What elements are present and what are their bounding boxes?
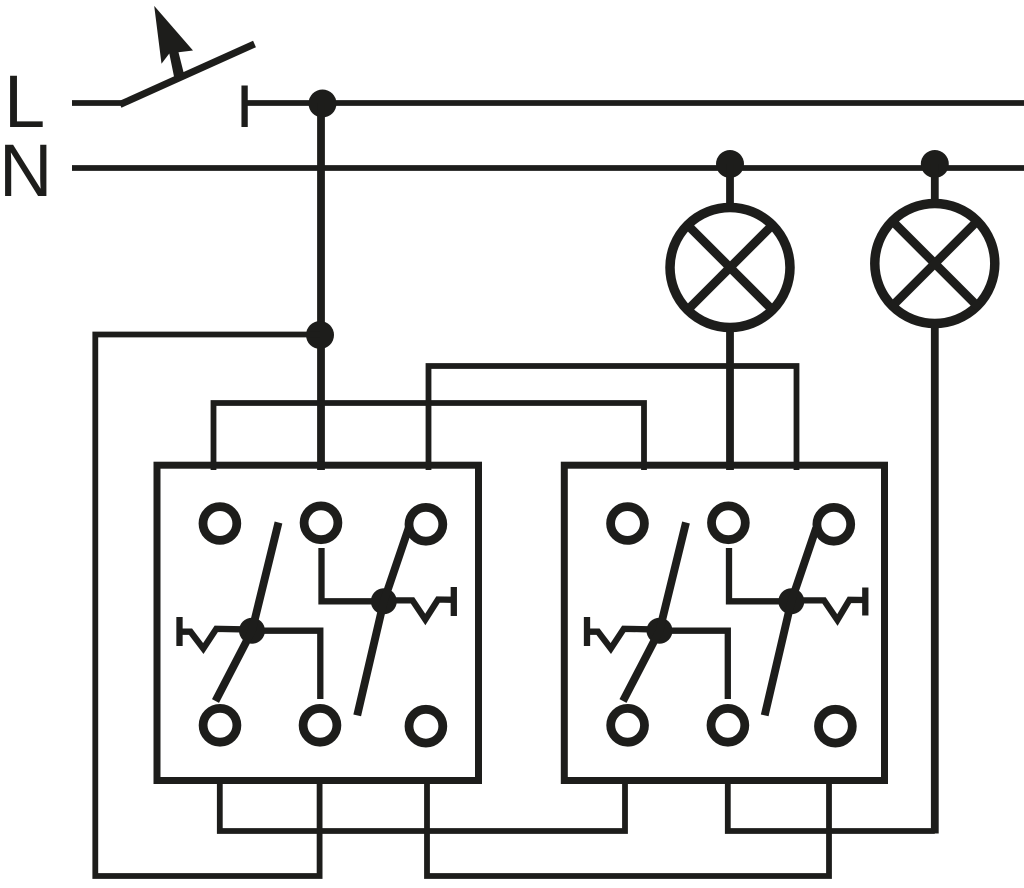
wire L feed stub bbox=[72, 100, 124, 106]
wire lamp E1 to box2 top-middle terminal bbox=[726, 326, 734, 470]
box2 terminal top-middle bbox=[712, 506, 746, 540]
box2 terminal bottom-middle bbox=[711, 708, 745, 742]
box2 terminal top-right bbox=[817, 507, 851, 541]
box1 gang1 lever bbox=[216, 523, 279, 702]
box1 gang2 contact wire bbox=[322, 548, 384, 601]
box2 gang2 contact wire bbox=[729, 548, 791, 601]
box2 gang1 lever bbox=[623, 523, 686, 702]
wire box1 top-left to box2 top-left bbox=[214, 403, 645, 470]
box1 terminal top-right bbox=[409, 507, 443, 541]
wire N bus bbox=[72, 165, 1024, 171]
box1 gang2 pivot bbox=[371, 588, 397, 614]
box2 terminal top-left bbox=[611, 507, 645, 541]
wire box1 bottom-right to box2 bottom-right bbox=[427, 777, 829, 876]
wire box1 top-right to box2 top-right bbox=[429, 366, 797, 470]
node N junction for lamp E2 bbox=[921, 150, 949, 178]
node L junction bbox=[309, 90, 337, 118]
push-button switch S1 actuator arrow bbox=[154, 6, 193, 78]
node distribution junction bbox=[306, 321, 334, 349]
box1 terminal bottom-middle bbox=[303, 708, 337, 742]
box2 gang1 return spring bbox=[587, 617, 660, 649]
box1 terminal top-left bbox=[203, 507, 237, 541]
box1 terminal bottom-left bbox=[203, 708, 237, 742]
switch box 2 outline bbox=[564, 465, 884, 780]
wire L bus bbox=[245, 100, 1024, 106]
box1 gang1 contact wire bbox=[252, 631, 320, 699]
svg-text:N: N bbox=[0, 129, 52, 212]
box1 gang1 pivot bbox=[239, 618, 265, 644]
node N junction for lamp E1 bbox=[716, 150, 744, 178]
box2 gang1 pivot bbox=[647, 618, 673, 644]
wire box1 bottom-left to box2 bottom-left bbox=[220, 777, 625, 831]
lamp E1 bbox=[670, 208, 790, 328]
box2 terminal bottom-right bbox=[819, 709, 853, 743]
switch box 1 outline bbox=[157, 465, 479, 780]
wire N to lamp E2 bbox=[931, 164, 939, 208]
push-button switch S1 fixed contact bar bbox=[241, 86, 247, 128]
box1 terminal top-middle bbox=[304, 506, 338, 540]
box1 terminal bottom-right bbox=[409, 709, 443, 743]
wire lamp E2 drop bbox=[931, 322, 939, 834]
wire box2 bottom-middle to lamp E2 bbox=[728, 777, 935, 831]
box1 gang2 lever bbox=[357, 528, 409, 715]
box1 gang2 return spring bbox=[384, 587, 454, 620]
box2 gang2 return spring bbox=[791, 588, 865, 621]
wire loop from junction to box1 bottom-middle terminal bbox=[95, 335, 320, 877]
push-button switch S1 blade bbox=[120, 44, 255, 105]
wire N to lamp E1 bbox=[726, 164, 734, 212]
lamp E2 bbox=[875, 204, 995, 324]
box2 terminal bottom-left bbox=[611, 708, 645, 742]
box1 gang1 return spring bbox=[180, 617, 253, 649]
box2 gang1 contact wire bbox=[660, 631, 728, 699]
box2 gang2 pivot bbox=[778, 588, 804, 614]
wire main drop from L junction bbox=[317, 103, 325, 470]
box2 gang2 lever bbox=[765, 528, 817, 715]
